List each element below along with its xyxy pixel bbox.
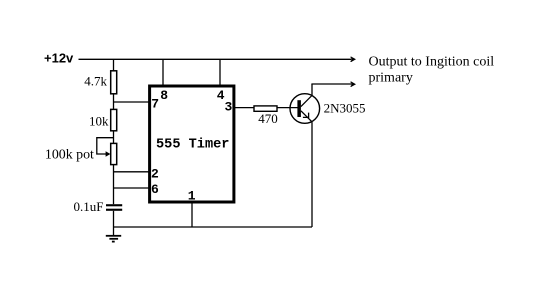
- emitter arrowhead: [303, 113, 309, 118]
- wire to pin 7: [114, 101, 150, 103]
- wire +12v rail: [79, 58, 352, 60]
- wire pin 3 to R4: [235, 107, 254, 109]
- wire R1 to R2: [113, 94, 115, 110]
- capacitor C1 0.1uF bottom plate: [106, 209, 122, 211]
- wire pin 8 stub: [162, 59, 164, 85]
- transistor Q1 emitter: [301, 111, 312, 122]
- wire pin 1 stub: [191, 204, 193, 228]
- wire ground rail: [114, 226, 313, 228]
- output arrowhead bottom: [351, 82, 356, 87]
- svg-text:4.7k: 4.7k: [84, 73, 107, 88]
- output arrowhead top: [351, 57, 356, 62]
- transistor Q1 circle: [290, 94, 320, 124]
- wire emitter to ground rail: [311, 122, 313, 227]
- pot wiper wire: [97, 138, 114, 154]
- svg-text:Output to Ingition coil: Output to Ingition coil: [369, 55, 495, 70]
- wire to pin 2: [114, 171, 150, 173]
- op-amp U1 555 timer box: [150, 86, 234, 202]
- wire R2 to pot: [113, 131, 115, 144]
- ground symbol: [106, 235, 121, 237]
- svg-text:555 Timer: 555 Timer: [156, 138, 229, 153]
- capacitor C1 0.1uF top plate: [106, 204, 122, 206]
- potentiometer R3 100k body: [111, 143, 117, 164]
- svg-text:primary: primary: [369, 70, 413, 85]
- wire C1 to ground rail: [113, 211, 115, 236]
- wire R4 to base: [277, 107, 298, 109]
- wire to pin 6: [114, 187, 150, 189]
- svg-text:470: 470: [258, 111, 278, 126]
- svg-text:100k pot: 100k pot: [45, 148, 94, 163]
- pot wiper arrowhead: [106, 151, 111, 156]
- svg-text:2N3055: 2N3055: [324, 101, 366, 116]
- svg-text:+12v: +12v: [44, 51, 74, 66]
- svg-text:7: 7: [151, 97, 159, 112]
- svg-text:8: 8: [160, 88, 168, 103]
- svg-text:1: 1: [188, 189, 196, 204]
- wire pin 4 stub: [219, 59, 221, 85]
- svg-text:0.1uF: 0.1uF: [74, 199, 104, 214]
- svg-text:2: 2: [151, 166, 159, 181]
- wire from rail to R1: [113, 59, 115, 71]
- resistor R1 4.7k: [111, 71, 117, 94]
- transistor Q1 collector: [301, 84, 312, 107]
- svg-text:6: 6: [151, 182, 159, 197]
- svg-text:10k: 10k: [89, 113, 109, 128]
- transistor Q1 base bar: [297, 100, 301, 117]
- resistor R2 10k: [111, 109, 117, 130]
- wire pot to C1: [113, 165, 115, 205]
- wire collector to output arrow: [311, 83, 351, 85]
- resistor R4 470: [254, 106, 277, 111]
- svg-text:3: 3: [225, 99, 233, 114]
